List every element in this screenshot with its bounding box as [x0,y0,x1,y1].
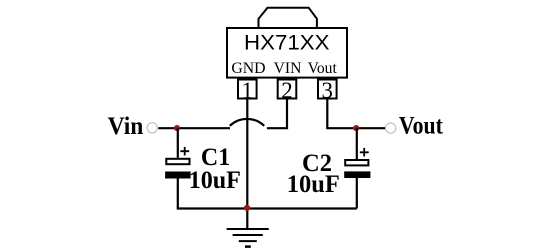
IC tab [259,8,317,28]
C2 plus sign [360,148,369,157]
svg-text:10uF: 10uF [287,171,340,198]
IC U1 body [227,28,347,78]
svg-text:Vout: Vout [399,113,444,140]
C1 plus sign [180,147,189,156]
C2 top plate [345,160,368,165]
svg-text:GND: GND [231,58,265,77]
wire C2 bottom lead [356,178,358,209]
wire C1 bottom lead [177,179,179,209]
C1 top plate [166,159,189,164]
wire hop arc over GND wire [230,119,264,126]
junction dot Vout/C2 [353,125,359,131]
wire ground rail [177,207,357,209]
wire pin3 Vout down and right [327,99,385,129]
node Vin terminal circle [147,123,157,133]
svg-text:10uF: 10uF [189,167,241,194]
pin 3 box [318,80,337,99]
wire pin2 VIN down and left [267,99,287,129]
capacitor C1 [165,128,191,208]
wire pin1 GND down to ground [246,99,248,230]
svg-text:Vin: Vin [108,113,144,140]
C2 bottom plate [344,171,370,178]
junction dot Vin/C1 [174,125,180,131]
pin 2 box [278,80,297,99]
wire Vin lead [158,127,230,129]
svg-text:VIN: VIN [274,58,302,77]
junction dot ground rail [244,205,250,211]
svg-text:HX71XX: HX71XX [244,30,330,54]
capacitor C2 [344,128,370,208]
wire C1 top lead [177,128,179,158]
svg-text:Vout: Vout [308,58,338,77]
pin 1 box [238,80,257,99]
node Vout terminal circle [386,123,396,133]
ground [227,229,269,247]
C1 bottom plate [165,172,191,179]
wire C2 top lead [356,128,358,159]
